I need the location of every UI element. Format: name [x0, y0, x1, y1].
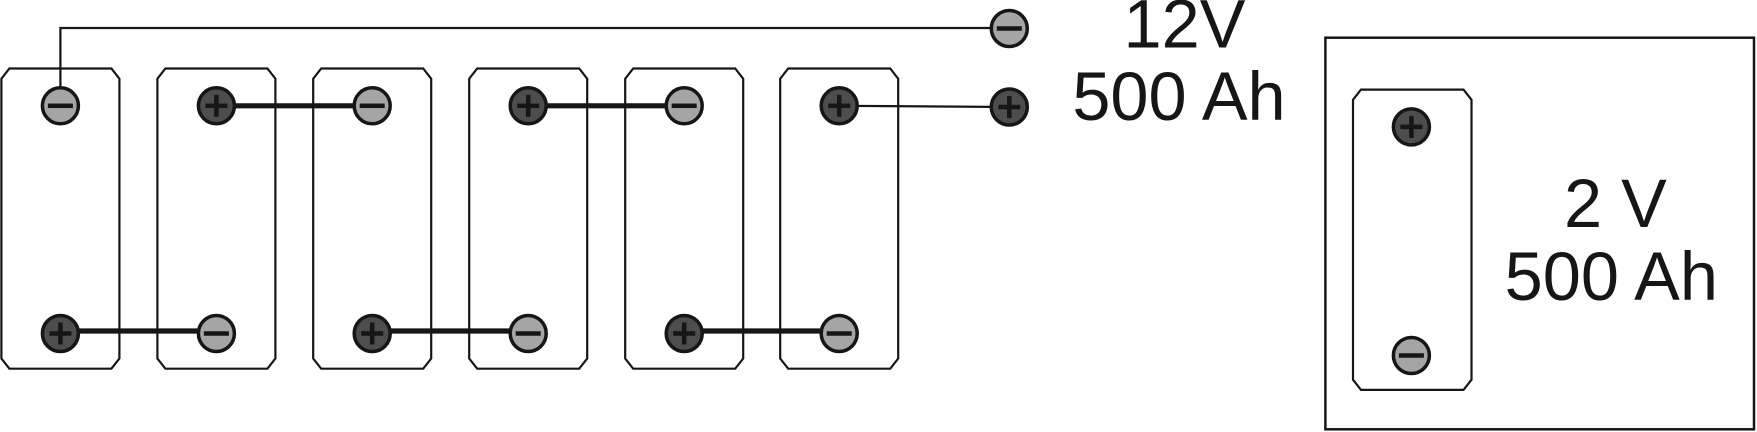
2V cell enclosure box — [1325, 38, 1754, 430]
2V cell outline — [1353, 90, 1472, 390]
cell 2 outline — [157, 69, 275, 369]
series link cell1+ to cell2- (bottom) — [60, 328, 216, 333]
cell 5 outline — [625, 69, 743, 369]
cell 2 positive terminal (top) — [198, 88, 234, 124]
series link cell2+ to cell3- (top) — [216, 103, 372, 108]
cell 4 positive terminal (top) — [510, 88, 546, 124]
cell 5 negative terminal (top) — [666, 88, 702, 124]
svg-text:500 Ah: 500 Ah — [1072, 58, 1285, 135]
cell 1 positive terminal (bottom) — [42, 316, 78, 352]
cell 6 positive terminal (top) — [821, 88, 857, 124]
cell 6 outline — [780, 69, 898, 369]
cell 3 negative terminal (top) — [354, 88, 390, 124]
cell 3 positive terminal (bottom) — [354, 316, 390, 352]
series link cell4+ to cell5- (top) — [528, 103, 684, 108]
cell 3 outline — [313, 69, 431, 369]
svg-text:500 Ah: 500 Ah — [1505, 238, 1718, 315]
cell 6 negative terminal (bottom) — [821, 316, 857, 352]
12V battery negative output terminal — [991, 11, 1027, 47]
wire from cell 6 positive terminal to 12V positive output — [839, 106, 1009, 107]
12V battery positive output terminal — [991, 89, 1027, 125]
series link cell3+ to cell4- (bottom) — [372, 328, 528, 333]
cell 4 outline — [469, 69, 587, 369]
svg-text:12V: 12V — [1124, 0, 1246, 63]
series link cell5+ to cell6- (bottom) — [684, 328, 839, 333]
cell 1 negative terminal (top) — [42, 88, 78, 124]
cell 2 negative terminal (bottom) — [198, 316, 234, 352]
2V cell positive terminal — [1393, 109, 1429, 145]
wire from cell 1 negative terminal to 12V negative output — [60, 28, 1009, 105]
cell 4 negative terminal (bottom) — [510, 316, 546, 352]
svg-text:2 V: 2 V — [1564, 165, 1667, 242]
cell 5 positive terminal (bottom) — [666, 316, 702, 352]
2V cell negative terminal — [1393, 338, 1429, 374]
cell 1 outline — [1, 69, 119, 369]
